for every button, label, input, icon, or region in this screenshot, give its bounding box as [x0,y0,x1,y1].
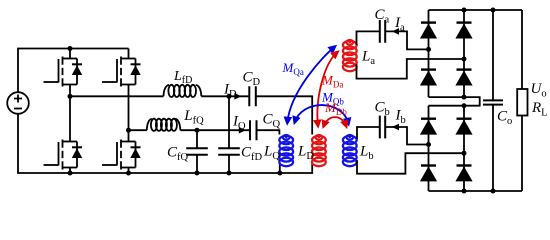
svg-text:LfQ: LfQ [183,108,204,127]
junction: bottom rail right leg [462,189,467,194]
diode D6 [455,119,472,135]
capacitor CQ [250,120,257,140]
capacitor Ca [380,20,385,43]
transistor Q2 [102,57,141,87]
svg-text:RL: RL [531,100,548,119]
svg-text:ID: ID [223,82,237,101]
wire top-bridge negative rail [429,97,480,106]
svg-text:CD: CD [243,70,261,89]
junction: bridge-b right input [462,151,467,156]
wire top-bridge left leg [428,10,430,97]
current arrow IQ [239,127,246,134]
svg-text:Lb: Lb [359,144,374,163]
mutual coupling arrow MQa [287,47,335,124]
svg-text:MDa: MDa [321,73,343,90]
diode D5 [420,119,437,135]
wire bottom-bridge right leg [463,106,465,191]
transistor Q1 [44,57,83,87]
wire Ca to bridge-a left input [385,31,428,49]
capacitor CfQ [186,130,208,173]
svg-text:Cb: Cb [375,100,390,119]
junction: bridge-b left input [426,142,431,147]
svg-text:CfD: CfD [241,145,263,164]
resistor RL [517,10,527,191]
mutual coupling arrow MDa [317,52,337,126]
wire D-channel [70,96,312,134]
wire bottom-bridge left leg [428,106,430,191]
svg-text:Co: Co [497,109,512,128]
junction: CfQ ground [195,171,200,176]
diode D3 [420,70,437,86]
capacitor CD [249,86,256,106]
diode D8 [455,166,472,182]
wire right leg [128,49,130,174]
junction node Q (right leg midpoint) [126,128,131,133]
coil Lb [343,135,357,166]
current arrow ID [234,93,241,100]
mutual coupling arrow MDb [324,117,347,126]
junction: right leg bottom rail [126,171,131,176]
junction: top rail right leg [462,8,467,13]
wire rectifier bottom rail [429,190,523,192]
wire La bottom to bridge-a right input [357,59,465,79]
svg-text:La: La [361,48,375,67]
wire left leg [69,49,71,174]
mutual coupling arrow MQb [295,105,349,124]
svg-text:LQ: LQ [263,144,280,163]
transistor Q4 [102,140,141,170]
coil LD [312,135,326,166]
junction: bottom rail Co branch [491,189,496,194]
junction: CfD tap on D-wire [227,94,232,99]
current arrow Ia [392,28,399,35]
wire Lb bottom to bridge-b right input [357,153,464,174]
wire Cb to bridge-b left input [385,127,428,145]
current arrow Ib [392,124,399,131]
wire Q-channel [129,130,280,134]
svg-text:MQa: MQa [282,60,304,77]
wire Lb top loop [357,127,380,139]
svg-text:Ca: Ca [375,7,390,26]
svg-text:CfQ: CfQ [167,145,189,164]
junction: top rail Co branch [491,8,496,13]
diode D2 [455,23,472,39]
coil LQ [279,135,293,166]
svg-text:Ib: Ib [395,108,406,127]
junction: CfD ground [227,171,232,176]
capacitor CfD [218,96,240,173]
inductor LfQ [147,119,181,131]
DC source [7,92,29,114]
diode D7 [420,166,437,182]
junction: left leg bottom rail [68,171,73,176]
junction: LQ ground [277,171,282,176]
capacitor Co [483,10,503,191]
diode D4 [455,70,472,86]
capacitor Cb [380,116,385,139]
junction: bridge-a left input [426,47,431,52]
junction node D (left leg midpoint) [68,94,73,99]
svg-text:Uo: Uo [531,81,547,100]
transistor Q3 [44,140,83,170]
wire top-bridge right leg [463,10,465,97]
inductor LfD [164,85,202,97]
svg-text:Ia: Ia [394,15,405,34]
svg-text:LfD: LfD [173,69,192,86]
junction: bridge-b positive rail [462,103,467,108]
junction: left leg top rail [68,46,73,51]
wire LQ bottom lead [279,163,281,174]
wire La top loop [357,31,380,45]
junction: bridge-a right input [462,57,467,62]
junction: bridge-a negative rail [462,95,467,100]
wire rectifier top rail [429,9,523,11]
diode D1 [420,23,437,39]
svg-text:CQ: CQ [263,112,281,131]
wire bottom rail inverter/ground [18,114,312,173]
wire top rail inverter [18,49,129,93]
junction: CfQ tap on Q-wire [195,128,200,133]
coil La [343,40,357,71]
svg-text:IQ: IQ [232,114,246,133]
